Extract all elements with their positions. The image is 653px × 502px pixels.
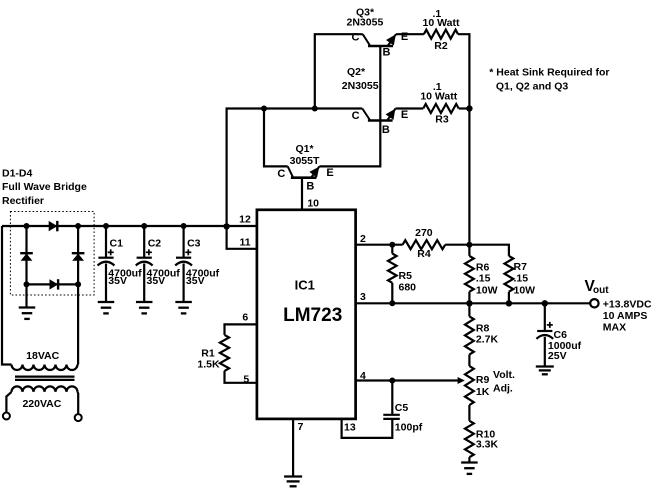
svg-text:220VAC: 220VAC bbox=[22, 398, 61, 410]
op-amp U1 IC1 LM723 box bbox=[257, 210, 356, 419]
svg-text:C5: C5 bbox=[395, 402, 409, 414]
transformer core bbox=[15, 376, 75, 378]
svg-text:R2: R2 bbox=[434, 40, 448, 52]
node pin3 C6 bbox=[542, 300, 548, 306]
wire R9 R10 bbox=[468, 405, 470, 421]
svg-text:R3: R3 bbox=[435, 113, 449, 125]
resistor R4 bbox=[403, 240, 446, 249]
node C2 top bbox=[141, 223, 147, 229]
capacitor C6 bbox=[537, 330, 552, 332]
node Q1 collector tap bbox=[261, 106, 267, 112]
svg-text:Full Wave Bridge: Full Wave Bridge bbox=[2, 181, 87, 193]
svg-text:1.5K: 1.5K bbox=[197, 359, 220, 371]
svg-text:2N3055: 2N3055 bbox=[347, 17, 384, 29]
svg-text:R9: R9 bbox=[476, 374, 490, 386]
svg-text:270: 270 bbox=[415, 227, 433, 239]
svg-text:3: 3 bbox=[360, 291, 366, 303]
svg-text:B: B bbox=[382, 124, 390, 136]
wire rail to collectors bbox=[227, 109, 363, 227]
ground C6 bbox=[536, 365, 554, 367]
diode D3 bbox=[72, 252, 85, 254]
wire R5 bottom bbox=[391, 283, 393, 304]
resistor R6 bbox=[465, 256, 474, 292]
wire pin 11 link bbox=[227, 226, 257, 248]
ground C2 bbox=[136, 301, 153, 303]
svg-text:Adj.: Adj. bbox=[493, 382, 513, 394]
svg-text:C2: C2 bbox=[148, 238, 162, 250]
wire unregulated DC rail bbox=[2, 225, 257, 227]
wire R10 ground bbox=[468, 457, 470, 461]
svg-text:680: 680 bbox=[399, 282, 417, 294]
svg-text:1K: 1K bbox=[476, 386, 490, 398]
resistor R8 bbox=[465, 316, 474, 354]
transformer primary 18VAC winding bbox=[12, 365, 78, 371]
wire bridge bottom bbox=[27, 283, 79, 285]
ground bridge bbox=[19, 306, 36, 308]
ground pin 7 bbox=[284, 475, 302, 477]
svg-text:D1-D4: D1-D4 bbox=[2, 167, 33, 179]
svg-text:IC1: IC1 bbox=[295, 277, 315, 292]
wire C5 top bbox=[391, 381, 393, 415]
transistor Q1 bbox=[288, 166, 294, 177]
resistor R2 bbox=[424, 30, 458, 39]
svg-text:10W: 10W bbox=[476, 285, 498, 297]
svg-text:12: 12 bbox=[239, 213, 251, 225]
wire Q1 collector link bbox=[264, 109, 288, 167]
wire pin 3 output rail bbox=[356, 302, 591, 304]
ground C3 bbox=[175, 301, 192, 303]
node R3 rail bbox=[466, 105, 472, 111]
wire secondary right lead bbox=[76, 392, 79, 414]
svg-text:2N3055: 2N3055 bbox=[342, 80, 379, 92]
capacitor C1 bbox=[98, 257, 113, 259]
wire pin 7 bbox=[292, 419, 294, 476]
resistor R1 bbox=[220, 335, 229, 371]
wire Q1 emitter to bases bbox=[320, 46, 381, 166]
terminal 220VAC right bbox=[75, 414, 82, 421]
svg-text:LM723: LM723 bbox=[283, 305, 342, 326]
svg-text:C: C bbox=[352, 110, 360, 122]
svg-text:C: C bbox=[277, 168, 285, 180]
svg-text:13: 13 bbox=[344, 421, 356, 433]
wiper arrow R9 bbox=[458, 377, 465, 384]
svg-text:E: E bbox=[326, 167, 333, 179]
svg-text:10 AMPS: 10 AMPS bbox=[603, 310, 648, 322]
svg-text:35V: 35V bbox=[147, 275, 166, 287]
resistor R10 bbox=[465, 421, 474, 457]
svg-text:C3: C3 bbox=[187, 238, 201, 250]
wire Q3 emitter bbox=[396, 33, 424, 35]
node rail junction bbox=[223, 223, 229, 229]
wire right rail upper bbox=[468, 109, 470, 245]
wire R7 bottom bbox=[508, 292, 510, 304]
svg-text:2.7K: 2.7K bbox=[476, 334, 499, 346]
node pin4 C5 bbox=[389, 378, 395, 384]
diode D1 bbox=[49, 221, 58, 231]
svg-text:.15: .15 bbox=[476, 273, 491, 285]
wire Q2 emitter bbox=[396, 107, 424, 109]
node C1 top bbox=[103, 223, 109, 229]
svg-text:6: 6 bbox=[242, 312, 248, 324]
wire C2 lower bbox=[143, 264, 145, 302]
node bridge bottom-right bbox=[75, 281, 81, 287]
wire C1 upper bbox=[105, 226, 107, 258]
svg-text:10 Watt: 10 Watt bbox=[420, 90, 457, 102]
terminal Vout bbox=[590, 299, 598, 307]
svg-text:Q2*: Q2* bbox=[347, 66, 366, 78]
wire secondary left lead bbox=[6, 392, 11, 413]
svg-text:10: 10 bbox=[307, 198, 319, 210]
svg-text:3.3K: 3.3K bbox=[476, 439, 499, 451]
ground R10 bbox=[461, 461, 478, 463]
node pin2 rail bbox=[466, 242, 472, 248]
resistor R5 bbox=[388, 254, 397, 283]
wire pin 6 bbox=[225, 324, 257, 335]
wire pin 5 bbox=[225, 371, 257, 383]
svg-text:35V: 35V bbox=[186, 275, 205, 287]
node C3 top bbox=[181, 223, 187, 229]
wire C2 upper bbox=[143, 226, 145, 258]
wire R8 R9 bbox=[468, 355, 470, 367]
wire AC input left vertical bbox=[2, 226, 12, 365]
wire R6 bottom bbox=[468, 292, 470, 304]
wire R4 to R7 bbox=[445, 245, 509, 256]
node bridge top-left bbox=[24, 223, 30, 229]
svg-text:R7: R7 bbox=[514, 261, 528, 273]
capacitor C2 bbox=[137, 257, 152, 259]
wire Q3 collector link bbox=[315, 34, 363, 108]
svg-text:+13.8VDC: +13.8VDC bbox=[603, 298, 652, 310]
node bridge top-right bbox=[75, 223, 81, 229]
svg-text:R5: R5 bbox=[399, 270, 413, 282]
svg-text:18VAC: 18VAC bbox=[26, 350, 59, 362]
terminal 220VAC left bbox=[3, 413, 10, 420]
wire C1 lower bbox=[105, 264, 107, 302]
svg-text:10 Watt: 10 Watt bbox=[423, 17, 460, 29]
svg-text:out: out bbox=[593, 285, 609, 296]
wire C6 top bbox=[544, 303, 546, 331]
resistor R7 bbox=[505, 256, 514, 292]
capacitor C3 bbox=[176, 257, 191, 259]
svg-text:E: E bbox=[401, 31, 408, 43]
wire C3 lower bbox=[183, 264, 185, 302]
transformer secondary 220VAC winding bbox=[12, 386, 78, 391]
node bridge bottom-left bbox=[24, 281, 30, 287]
ground C1 bbox=[98, 301, 115, 303]
node pin3 R7 bbox=[506, 300, 512, 306]
wire C3 upper bbox=[183, 226, 185, 258]
wire R8 top bbox=[468, 303, 470, 316]
svg-text:35V: 35V bbox=[108, 275, 127, 287]
svg-text:11: 11 bbox=[239, 236, 250, 248]
svg-text:R4: R4 bbox=[417, 248, 431, 260]
node Q3 collector tap bbox=[312, 106, 318, 112]
svg-text:C1: C1 bbox=[110, 238, 124, 250]
diode D2 bbox=[20, 252, 33, 254]
svg-text:25V: 25V bbox=[548, 350, 567, 362]
node pin3 rail bbox=[466, 300, 472, 306]
wire R3 to rail bbox=[459, 107, 470, 109]
svg-text:7: 7 bbox=[298, 421, 304, 433]
resistor R3 bbox=[423, 104, 459, 113]
wire bridge right branch bbox=[77, 226, 79, 365]
transistor Q3 bbox=[363, 34, 371, 46]
svg-text:.15: .15 bbox=[514, 273, 529, 285]
wire R6 top bbox=[468, 245, 470, 256]
svg-text:2: 2 bbox=[360, 233, 366, 245]
diode D4 bbox=[50, 279, 59, 289]
svg-text:Q1, Q2 and Q3: Q1, Q2 and Q3 bbox=[496, 81, 569, 93]
wire R5 top bbox=[391, 245, 393, 254]
svg-text:C: C bbox=[352, 32, 360, 44]
node pin3 R5 bbox=[389, 300, 395, 306]
bridge dotted box bbox=[10, 212, 94, 296]
wire pin 2 bbox=[356, 244, 403, 246]
svg-text:Rectifier: Rectifier bbox=[2, 195, 44, 207]
wire C5 to pin 13 bbox=[342, 419, 393, 438]
potentiometer R9 bbox=[465, 366, 474, 405]
wire R2 to rail bbox=[458, 34, 469, 108]
svg-text:3055T: 3055T bbox=[290, 155, 320, 167]
wire C6 bottom bbox=[544, 337, 546, 366]
node pin2 R5 bbox=[389, 242, 395, 248]
svg-text:B: B bbox=[383, 47, 391, 59]
svg-text:Volt.: Volt. bbox=[493, 369, 515, 381]
svg-text:B: B bbox=[306, 181, 314, 193]
capacitor C5 bbox=[383, 414, 400, 416]
svg-text:* Heat Sink Required for: * Heat Sink Required for bbox=[489, 67, 609, 79]
svg-text:10W: 10W bbox=[514, 285, 536, 297]
wire bridge left branch bbox=[25, 226, 27, 307]
svg-text:Q1*: Q1* bbox=[295, 143, 314, 155]
wire pin 4 bbox=[356, 379, 459, 381]
wire Q1 base pin 10 bbox=[301, 178, 303, 210]
transistor Q2 bbox=[362, 109, 370, 121]
svg-text:E: E bbox=[401, 109, 408, 121]
svg-text:100pf: 100pf bbox=[395, 421, 423, 433]
svg-text:MAX: MAX bbox=[603, 321, 626, 333]
